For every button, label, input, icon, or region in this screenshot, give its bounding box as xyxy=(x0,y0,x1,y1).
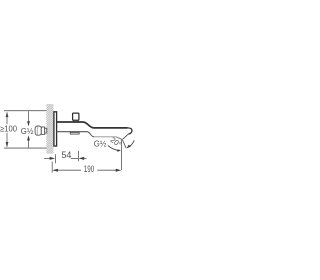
dim 190 line with arrows xyxy=(57,169,81,171)
hose outlet ring xyxy=(70,132,79,134)
spout tip xyxy=(128,128,132,134)
top reference line xyxy=(4,110,46,112)
G1/2 thread dim bottom arrow xyxy=(28,140,30,148)
dim 54 right outside arrow xyxy=(84,157,87,159)
angle vertical reference line xyxy=(120,139,122,170)
svg-text:G½: G½ xyxy=(94,139,107,148)
inlet sleeve xyxy=(41,127,44,134)
svg-text:≥100: ≥100 xyxy=(0,123,17,133)
spout top outline xyxy=(57,122,128,128)
dim 54 stub lines xyxy=(71,157,78,159)
svg-text:54: 54 xyxy=(61,150,71,160)
inlet pipe into wall xyxy=(45,128,47,133)
G1/2 thread dim top arrow xyxy=(28,111,30,122)
dim 190 left extension line xyxy=(51,162,53,173)
angle arc left with arrowhead xyxy=(108,145,120,150)
inlet nut edge line xyxy=(36,126,38,135)
spout mouth left slant xyxy=(116,137,121,139)
spout bottom outline upper part xyxy=(57,132,95,137)
diverter knob xyxy=(73,113,79,120)
svg-text:G½: G½ xyxy=(21,127,34,136)
dim >=100 down arrow xyxy=(6,142,9,148)
dim 54 left outside arrow xyxy=(44,157,49,159)
dim 54 extension lines xyxy=(56,151,79,163)
svg-text:190: 190 xyxy=(84,164,94,174)
wall hatched section xyxy=(46,104,53,154)
escutcheon flange xyxy=(54,112,57,146)
inlet union nut xyxy=(35,126,41,135)
dim >=100 up arrow xyxy=(6,112,9,118)
angle 20 deg line xyxy=(122,139,126,148)
bottom reference line xyxy=(4,147,47,149)
spout bottom outline lower part xyxy=(94,136,116,138)
angle arc right with arrowhead xyxy=(127,140,134,147)
